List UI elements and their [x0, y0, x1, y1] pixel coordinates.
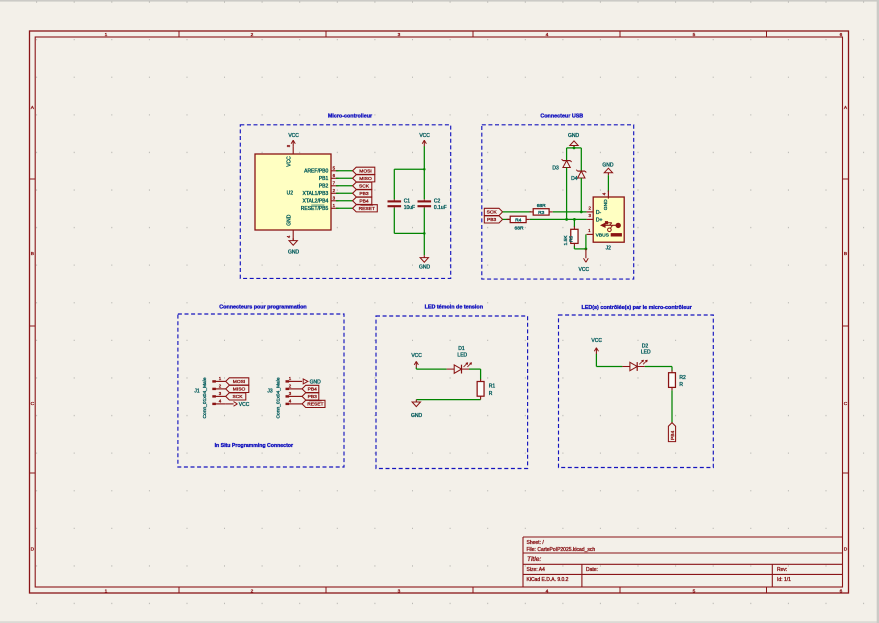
svg-text:PB4: PB4	[670, 430, 676, 440]
pin 1 of J1	[213, 380, 225, 382]
svg-text:GND: GND	[411, 413, 423, 419]
svg-text:PB4: PB4	[308, 387, 318, 393]
pin 4 of J3	[287, 403, 303, 405]
power VCC (decoupling)	[423, 140, 425, 146]
svg-text:J1: J1	[194, 388, 200, 394]
svg-text:XTAL2/PB4: XTAL2/PB4	[303, 199, 329, 205]
power GND (D1)	[415, 400, 417, 402]
resistor R2	[671, 370, 673, 372]
svg-text:D: D	[844, 547, 848, 553]
svg-text:2: 2	[251, 588, 254, 594]
svg-text:VCC: VCC	[239, 402, 250, 408]
pin 4 GND of J2	[607, 191, 609, 199]
svg-text:PB1: PB1	[319, 176, 329, 182]
svg-text:GND: GND	[568, 133, 580, 139]
wire PB3 to R4	[503, 218, 510, 220]
wire R1 to GND	[416, 399, 480, 401]
junction	[580, 211, 583, 214]
svg-text:SCK: SCK	[359, 184, 370, 190]
svg-text:Date:: Date:	[586, 567, 598, 573]
wire D4 top	[580, 148, 582, 171]
global label MOSI	[353, 167, 375, 174]
capacitor C2	[418, 200, 432, 202]
svg-text:LED(s) contrôlée(s) par le mic: LED(s) contrôlée(s) par le micro-contrôl…	[581, 305, 692, 311]
svg-text:Micro-controlleur: Micro-controlleur	[328, 114, 373, 120]
global label SCK (J1)	[226, 393, 246, 400]
resistor R1	[480, 379, 482, 381]
svg-text:RESET: RESET	[307, 402, 323, 408]
global label PB3	[353, 190, 372, 197]
global label MISO	[353, 175, 375, 182]
svg-text:KiCad E.D.A. 9.0.2: KiCad E.D.A. 9.0.2	[527, 577, 569, 583]
zener diode D3	[563, 160, 570, 162]
svg-text:1: 1	[105, 32, 108, 38]
svg-text:0.1uF: 0.1uF	[434, 205, 447, 211]
svg-text:PB3: PB3	[359, 191, 369, 197]
wire D3 top	[566, 148, 568, 161]
junction	[423, 168, 426, 171]
svg-text:RESET/PB5: RESET/PB5	[301, 206, 329, 212]
svg-text:C: C	[31, 401, 35, 407]
zener diode D4	[578, 170, 585, 172]
svg-text:GND: GND	[310, 379, 322, 385]
pin 2 of J1	[213, 388, 225, 390]
ic U2 body	[255, 154, 331, 230]
svg-text:MOSI: MOSI	[359, 169, 372, 175]
svg-text:Sheet: /: Sheet: /	[527, 540, 545, 546]
wire D3 bottom	[566, 168, 568, 220]
wire D4 bottom	[580, 178, 582, 212]
svg-text:R: R	[489, 391, 493, 397]
power VCC (VBUS)	[585, 249, 587, 258]
wire VBUS down	[585, 234, 587, 249]
led D1	[447, 368, 455, 370]
wire R3 to J2 D-	[553, 211, 587, 213]
svg-text:GND: GND	[602, 162, 614, 168]
power VCC (U2)	[292, 140, 294, 146]
svg-text:MOSI: MOSI	[233, 379, 246, 385]
svg-text:Connecteurs pour programmation: Connecteurs pour programmation	[219, 304, 306, 310]
power GND (J3 pin1)	[303, 379, 308, 384]
svg-text:GND: GND	[603, 199, 609, 210]
power GND (J2 shield)	[607, 173, 609, 175]
power VCC (D2)	[595, 348, 597, 354]
graphic: dashed box Connecteur USB	[482, 125, 634, 279]
svg-text:MISO: MISO	[359, 176, 372, 182]
global label PB3	[484, 216, 502, 223]
graphic: dashed box LED(s) controlee(s)	[559, 315, 714, 468]
svg-text:SCK: SCK	[487, 210, 498, 216]
pin 4 of J1	[213, 403, 225, 405]
svg-text:68R: 68R	[537, 203, 546, 209]
led D2	[622, 366, 630, 368]
wire	[336, 170, 353, 172]
svg-text:B: B	[31, 251, 34, 257]
svg-text:C2: C2	[434, 199, 441, 205]
svg-text:R1: R1	[489, 384, 496, 390]
svg-text:PB3: PB3	[308, 394, 318, 400]
global label RESET	[353, 205, 378, 212]
svg-text:68R: 68R	[515, 226, 524, 232]
svg-text:10uF: 10uF	[404, 205, 415, 211]
junction	[573, 218, 576, 221]
graphic: dashed box programmation	[178, 314, 344, 467]
resistor R5	[573, 227, 575, 230]
svg-text:D2: D2	[642, 343, 649, 349]
svg-text:C: C	[844, 401, 848, 407]
svg-text:VCC: VCC	[591, 338, 602, 344]
svg-text:GND: GND	[288, 249, 300, 255]
junction	[423, 232, 426, 235]
pin 2 D- of J2	[587, 211, 594, 213]
wire to R5	[573, 219, 575, 227]
svg-text:VCC: VCC	[288, 133, 299, 139]
pin 3 of J3	[287, 395, 303, 397]
svg-text:VCC: VCC	[419, 133, 430, 139]
global label PB4	[353, 197, 372, 204]
svg-text:Title:: Title:	[527, 556, 541, 563]
svg-text:D-: D-	[596, 210, 602, 216]
svg-text:PB4: PB4	[359, 199, 369, 205]
svg-text:J3: J3	[267, 388, 273, 394]
pin 3 of J1	[213, 395, 225, 397]
svg-text:4: 4	[546, 32, 549, 38]
pin 1 of J3	[287, 380, 303, 382]
svg-text:VBUS: VBUS	[596, 233, 610, 239]
svg-text:LED: LED	[641, 350, 651, 356]
svg-text:5: 5	[693, 32, 696, 38]
wire VCC to D2	[595, 354, 597, 367]
wire	[336, 185, 353, 187]
wire branch to C1	[394, 168, 424, 170]
wire C2 bottom	[423, 208, 425, 255]
svg-text:VCC: VCC	[579, 267, 590, 273]
svg-text:PB2: PB2	[319, 184, 329, 190]
svg-text:RESET: RESET	[359, 206, 375, 212]
wire	[336, 200, 353, 202]
wire	[336, 207, 353, 209]
wire GND to J2	[607, 175, 609, 192]
graphic: dashed box Micro-controlleur	[240, 125, 450, 279]
power GND (decoupling)	[423, 255, 425, 257]
wire R2 to PB4	[671, 390, 673, 422]
wire	[336, 192, 353, 194]
pin 3 D+ of J2	[587, 218, 594, 220]
svg-text:6: 6	[840, 32, 843, 38]
global label PB3 (J3)	[302, 393, 319, 400]
svg-text:B: B	[844, 251, 847, 257]
wire VCC to caps	[423, 146, 425, 199]
power VCC (D1)	[415, 361, 417, 367]
svg-text:AREF/PB0: AREF/PB0	[304, 169, 328, 175]
svg-text:D1: D1	[458, 346, 465, 352]
svg-text:C1: C1	[404, 199, 411, 205]
svg-text:Id: 1/1: Id: 1/1	[777, 577, 791, 583]
global label MOSI (J1)	[226, 378, 249, 385]
svg-text:XTAL1/PB3: XTAL1/PB3	[303, 191, 329, 197]
global label PB4 (down)	[668, 423, 675, 442]
svg-text:Connecteur USB: Connecteur USB	[540, 114, 583, 120]
svg-text:Conn_01x04_Male: Conn_01x04_Male	[202, 377, 208, 418]
svg-text:1.5K: 1.5K	[563, 235, 569, 246]
svg-text:D+: D+	[596, 217, 603, 223]
capacitor C1	[388, 200, 402, 202]
svg-text:Size: A4: Size: A4	[527, 567, 546, 573]
junction	[573, 147, 576, 150]
power GND (zeners)	[573, 146, 575, 148]
wire C1 bottom	[393, 208, 395, 233]
resistor R3	[530, 211, 534, 213]
svg-text:J2: J2	[606, 245, 612, 251]
wire D1 to R1	[469, 368, 481, 370]
svg-text:R4: R4	[515, 218, 522, 224]
svg-text:LED témoin de tension: LED témoin de tension	[425, 304, 483, 310]
resistor R4	[507, 218, 511, 220]
wire VCC to D1	[415, 368, 417, 370]
svg-text:LED: LED	[457, 352, 467, 358]
global label SCK	[484, 208, 502, 215]
svg-text:In Situ Programming Connector: In Situ Programming Connector	[215, 443, 293, 449]
svg-text:R: R	[679, 382, 683, 388]
junction	[585, 248, 588, 251]
svg-text:MISO: MISO	[233, 387, 246, 393]
graphic: dashed box LED temoin	[376, 316, 528, 469]
wire R4 to J2 D+	[530, 218, 587, 220]
svg-text:4: 4	[546, 588, 549, 594]
global label SCK	[353, 182, 372, 189]
wire zener bridge	[567, 147, 582, 149]
global label MISO (J1)	[226, 385, 249, 392]
wire	[336, 177, 353, 179]
svg-text:D4: D4	[571, 176, 578, 182]
svg-text:6: 6	[840, 588, 843, 594]
junction	[565, 218, 568, 221]
svg-text:3: 3	[398, 588, 401, 594]
wire D2 to R2	[645, 366, 672, 368]
svg-text:2: 2	[251, 32, 254, 38]
connector J2 body	[593, 197, 624, 242]
svg-text:SCK: SCK	[233, 394, 244, 400]
power GND (U2)	[292, 230, 294, 241]
svg-text:R3: R3	[538, 210, 545, 216]
svg-text:GND: GND	[419, 264, 431, 270]
svg-text:File: CartePoIP2025.kicad_sch: File: CartePoIP2025.kicad_sch	[527, 547, 596, 553]
global label PB4 (J3)	[302, 385, 319, 392]
svg-text:PB3: PB3	[487, 217, 497, 223]
global label RESET (J3)	[302, 400, 325, 407]
svg-text:1: 1	[105, 588, 108, 594]
pin 2 of J3	[287, 388, 303, 390]
svg-text:VCC: VCC	[411, 353, 422, 359]
svg-text:Rev:: Rev:	[777, 567, 787, 573]
svg-text:GND: GND	[287, 214, 293, 226]
svg-text:U2: U2	[287, 191, 294, 197]
svg-text:3: 3	[398, 32, 401, 38]
power VCC (J1 pin4)	[226, 403, 234, 405]
svg-text:R5: R5	[568, 235, 574, 242]
svg-text:R2: R2	[679, 375, 686, 381]
graphic: VBUS bar	[611, 233, 622, 236]
graphic: USB icon of J2	[603, 224, 617, 226]
wire SCK to R3	[503, 211, 531, 213]
svg-text:D3: D3	[552, 165, 559, 171]
title block	[523, 536, 843, 538]
svg-text:D: D	[31, 547, 35, 553]
svg-text:VCC: VCC	[287, 156, 293, 167]
pin 1 VBUS of J2	[587, 233, 594, 235]
svg-text:Conn_01x04_Male: Conn_01x04_Male	[276, 377, 282, 418]
wire R5 bottom	[573, 246, 575, 249]
svg-text:5: 5	[693, 588, 696, 594]
